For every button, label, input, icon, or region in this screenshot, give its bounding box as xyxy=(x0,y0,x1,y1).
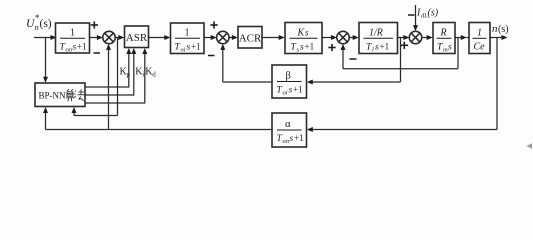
block ACR xyxy=(238,27,262,49)
wire Kd line xyxy=(85,53,145,103)
svg-text:(s): (s) xyxy=(40,18,52,30)
arrowhead into BP-NN top xyxy=(43,77,48,83)
wire sum3 to block 1/R xyxy=(349,37,354,39)
svg-text:on: on xyxy=(283,138,290,145)
svg-text:+1: +1 xyxy=(191,42,201,52)
svg-text:s: s xyxy=(289,86,293,96)
block R/(Tm s) xyxy=(433,23,455,54)
svg-text:n: n xyxy=(35,22,39,32)
svg-text:s: s xyxy=(448,43,452,53)
svg-text:l: l xyxy=(372,47,374,54)
block ASR xyxy=(125,26,149,48)
svg-text:s: s xyxy=(73,43,77,53)
summing junction sum3 xyxy=(337,31,349,43)
arrowhead into block 1/R xyxy=(353,35,359,40)
arrowhead into block2 xyxy=(164,35,170,40)
svg-text:i: i xyxy=(142,71,144,79)
plus sum2 xyxy=(210,21,217,28)
stray gray cursor arrow bottom right xyxy=(527,143,533,148)
arrowhead between R/Tms and 1/Ce xyxy=(461,35,467,40)
arrowhead into sum3 xyxy=(331,35,337,40)
wire block 1/R to sum4 xyxy=(398,37,404,39)
wire output n(s) xyxy=(490,37,503,39)
svg-text:d: d xyxy=(152,71,156,79)
svg-text:ASR: ASR xyxy=(126,32,148,44)
glyph suan xyxy=(66,89,75,101)
svg-text:+1: +1 xyxy=(294,133,304,143)
svg-text:(s): (s) xyxy=(498,24,509,35)
minus IdL xyxy=(408,14,415,16)
arrowhead into sum1 xyxy=(97,35,103,40)
label IdL(s) xyxy=(416,8,439,20)
block1 text 1/(T_on s+1) xyxy=(60,28,87,54)
summing junction sum2 xyxy=(217,31,229,43)
wire e horizontal to BP-NN xyxy=(74,115,118,117)
block BP-NN text xyxy=(39,89,85,101)
wire sum1 to ASR xyxy=(115,37,119,39)
arrowhead e into BP-NN bottom xyxy=(72,107,77,113)
svg-text:1/R: 1/R xyxy=(369,28,383,39)
wire ACR to Ks block xyxy=(262,37,280,39)
wire block1 to sum1 xyxy=(90,37,98,39)
svg-text:BP-NN: BP-NN xyxy=(39,91,67,101)
block 1/(T_on s+1) xyxy=(56,23,90,53)
wire Kp line xyxy=(85,53,129,87)
wire beta output to sum2 riser xyxy=(223,81,272,83)
wire Ks to sum3 xyxy=(322,37,331,39)
minus sum3 xyxy=(350,58,357,60)
svg-text:s: s xyxy=(187,43,191,53)
svg-text:+1: +1 xyxy=(305,42,315,52)
block 1/R text xyxy=(364,28,394,54)
arrowhead into beta block right xyxy=(307,80,313,85)
arrowhead into sum2 xyxy=(211,35,217,40)
svg-text:1: 1 xyxy=(70,28,75,39)
block2 text 1/(T_oi s+1) xyxy=(175,28,201,54)
svg-text:s: s xyxy=(300,43,304,53)
arrowhead into sum2 from below xyxy=(220,44,225,50)
wire beta feedback horizontal xyxy=(312,81,401,83)
svg-text:+1: +1 xyxy=(77,42,87,52)
plus sum3 xyxy=(328,44,335,51)
block alpha feedback xyxy=(272,113,307,147)
arrowhead into ACR xyxy=(232,35,238,40)
arrowhead IdL into sum4 xyxy=(413,25,418,31)
svg-text:oi: oi xyxy=(283,90,288,97)
svg-text:p: p xyxy=(127,71,131,79)
svg-text:Ce: Ce xyxy=(474,42,486,53)
arrowhead into block1 xyxy=(51,35,57,40)
wire ASR to block2 xyxy=(149,37,166,39)
summing junction sum4 xyxy=(409,31,421,43)
labels Kp Ki Kd xyxy=(120,67,157,79)
wire E feedback horizontal xyxy=(343,68,458,70)
wire sum2 to ACR xyxy=(229,37,233,39)
label U*n(s) input xyxy=(26,13,52,32)
label n(s) output xyxy=(492,23,509,35)
plus/minus signs xyxy=(91,15,415,59)
arrowhead n into BP-NN bottom xyxy=(43,107,48,113)
arrowhead into sum1 from below xyxy=(106,44,111,50)
arrowhead into R/Tms xyxy=(427,35,433,40)
wire n riser into BP-NN bottom xyxy=(45,112,47,130)
node Id tap down to beta line xyxy=(400,38,402,83)
svg-text:α: α xyxy=(285,119,291,130)
block Ks/(Ts s+1) xyxy=(285,23,322,54)
wire alpha feedback horizontal right xyxy=(312,129,498,131)
arrowhead into alpha block right xyxy=(307,127,313,132)
summing junction sum1 xyxy=(103,31,115,43)
svg-text:s: s xyxy=(305,28,309,38)
svg-text:ACR: ACR xyxy=(239,33,262,45)
block (1/R)/(Tl s+1) xyxy=(359,23,398,54)
glyph fa xyxy=(74,89,84,101)
block BP-NN xyxy=(35,83,85,107)
wire sum4 to R/Tms xyxy=(422,37,428,39)
svg-text:+1: +1 xyxy=(380,42,390,52)
wire IdL drop xyxy=(415,5,417,26)
block Ks text xyxy=(290,28,318,54)
wire R/Tms to 1/Ce xyxy=(455,37,462,39)
block alpha text xyxy=(277,119,304,145)
wire Ki line xyxy=(85,53,134,95)
plus sum4 xyxy=(401,42,408,49)
arrowhead Ki into ASR bottom xyxy=(131,48,136,54)
node e tap down xyxy=(117,38,119,116)
block 1/Ce text xyxy=(473,28,487,53)
block R/Tms text xyxy=(437,28,453,54)
node E tap down xyxy=(457,38,459,69)
arrowhead output n(s) xyxy=(502,35,508,40)
svg-text:R: R xyxy=(440,28,447,39)
block beta feedback xyxy=(272,65,307,98)
minus sum2 xyxy=(208,55,215,57)
svg-text:on: on xyxy=(66,47,73,54)
block 1/(T_oi s+1) xyxy=(171,23,205,54)
block beta text xyxy=(277,71,303,97)
minus sum1 xyxy=(94,52,101,54)
wire alpha output to left xyxy=(46,129,273,131)
wire block2 to sum2 xyxy=(204,37,211,39)
arrowhead into sum4 xyxy=(403,35,409,40)
wire e riser into BP-NN bottom xyxy=(73,112,75,116)
wire n feedback riser to sum1 xyxy=(108,50,110,130)
arrowhead Kd into ASR bottom xyxy=(142,48,147,54)
wire input U*n(s) xyxy=(34,37,52,39)
svg-text:β: β xyxy=(286,71,291,82)
arrowhead Kp into ASR bottom xyxy=(126,48,131,54)
svg-text:1: 1 xyxy=(185,28,190,39)
node n tap down xyxy=(496,38,498,130)
arrowhead into Ks block xyxy=(279,35,285,40)
svg-text:oi: oi xyxy=(181,47,186,54)
arrowhead into ASR xyxy=(118,35,124,40)
plus sum1 xyxy=(91,21,98,28)
svg-text:s: s xyxy=(290,134,294,144)
block 1/Ce xyxy=(469,23,490,54)
wire tap to BP-NN top xyxy=(45,38,47,78)
svg-text:(s): (s) xyxy=(428,8,439,19)
svg-text:1: 1 xyxy=(477,28,482,39)
wire E feedback riser to sum3 xyxy=(342,49,344,69)
svg-text:s: s xyxy=(375,43,379,53)
arrowhead into sum3 from below xyxy=(341,44,346,50)
svg-text:+1: +1 xyxy=(293,85,303,95)
